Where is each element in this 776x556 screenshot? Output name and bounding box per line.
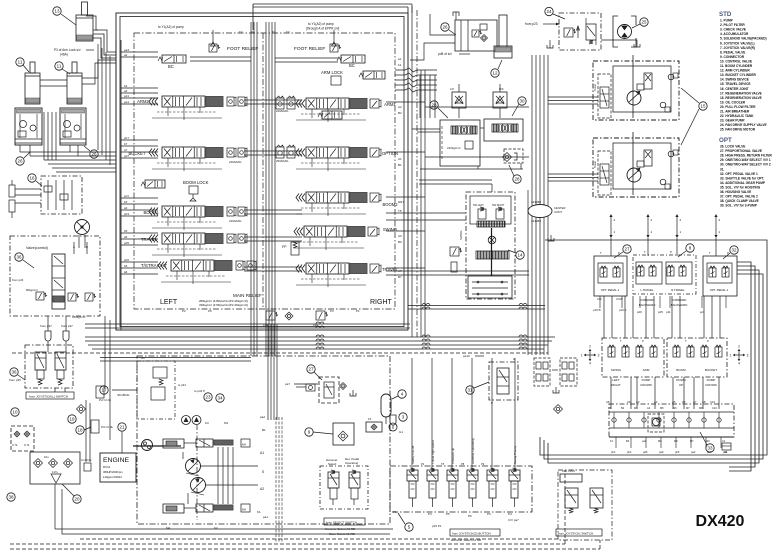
svg-text:220kg/cm²: 220kg/cm² — [447, 146, 461, 150]
label LEFT — [160, 299, 178, 306]
svg-text:28: 28 — [514, 177, 520, 182]
svg-text:SWING: SWING — [611, 368, 622, 372]
pilot relief A3 — [141, 356, 186, 400]
valve BUCKET — [149, 147, 247, 171]
circle 30 top — [512, 97, 526, 116]
circle 36 valve control — [15, 253, 34, 268]
vent above holding box — [453, 12, 459, 20]
svg-text:U=A OVRC: U=A OVRC — [562, 469, 575, 473]
svg-text:Travel: Travel — [594, 84, 597, 91]
pilot relief A3 box — [137, 361, 175, 419]
control valve block dash-dot border — [134, 33, 395, 309]
valve ARM1 regen — [318, 111, 342, 119]
circle 20 — [62, 484, 81, 503]
svg-text:OPT. PEDAL 1: OPT. PEDAL 1 — [601, 288, 620, 292]
svg-text:DX420: DX420 — [696, 513, 745, 530]
svg-text:CW: CW — [597, 297, 602, 301]
svg-text:to Y1(A2) of pump: to Y1(A2) of pump — [308, 22, 334, 26]
svg-text:P: P — [727, 251, 729, 255]
label BOOM LOCK — [183, 180, 209, 201]
accumulator 3 — [389, 415, 397, 431]
note steer select a1 — [329, 532, 355, 536]
valve main relief 2 — [313, 311, 328, 327]
circle 17 — [96, 386, 111, 402]
svg-text:C10: C10 — [712, 406, 717, 410]
joystick cross right — [730, 345, 749, 366]
pedal valve L TRAVEL — [636, 262, 662, 292]
svg-text:R.TRAVEL: R.TRAVEL — [671, 288, 685, 292]
right solenoid assembly — [558, 469, 612, 540]
pedal port labels — [593, 308, 705, 314]
travel motor block right — [60, 108, 86, 145]
valve T-STRAIGHT — [158, 260, 256, 284]
svg-text:pb5: pb5 — [675, 450, 680, 454]
label BOOM2 — [382, 202, 398, 207]
small box F1 — [366, 417, 382, 432]
svg-text:26: 26 — [442, 25, 448, 30]
boom cylinder left — [25, 62, 40, 104]
hammer valve 2 — [349, 470, 360, 505]
travel pedal dashdot box — [633, 255, 696, 294]
svg-text:A4: A4 — [647, 406, 651, 410]
wire top return bus — [253, 4, 412, 60]
svg-text:a2: a2 — [124, 53, 128, 57]
svg-text:BOOM1: BOOM1 — [143, 210, 159, 215]
label TRAVEL right — [382, 267, 399, 272]
svg-text:K1: K1 — [257, 510, 261, 514]
svg-text:T: T — [620, 339, 622, 343]
svg-text:Hammer Select A1 RB: Hammer Select A1 RB — [451, 538, 481, 542]
svg-text:ARM1: ARM1 — [384, 102, 396, 107]
circle 25 — [632, 18, 648, 28]
svg-text:380HP/2000rpm: 380HP/2000rpm — [103, 470, 123, 474]
svg-text:UP: UP — [679, 383, 683, 387]
boom holding valve box — [455, 20, 497, 51]
svg-text:14: 14 — [517, 253, 523, 258]
wire pilot crossing — [395, 68, 437, 118]
fan supply valve box — [559, 13, 601, 50]
valve 21 glyph — [91, 420, 113, 433]
svg-text:K3: K3 — [205, 421, 209, 425]
svg-text:21: 21 — [119, 425, 125, 430]
wire holding to block — [410, 14, 455, 60]
svg-text:pd5: pd5 — [124, 241, 129, 245]
valve ARM2 — [149, 96, 247, 120]
svg-text:2. PILOT FILTER: 2. PILOT FILTER — [720, 23, 745, 27]
port labels top — [239, 30, 290, 34]
svg-text:2: 2 — [738, 345, 740, 349]
svg-text:A8: A8 — [606, 400, 610, 404]
svg-text:3: 3 — [747, 353, 749, 357]
svg-text:BACKWARD: BACKWARD — [639, 303, 656, 307]
pilot caps ARM1 — [276, 96, 295, 113]
pedal valve OPT PEDAL 1 left — [594, 251, 627, 296]
svg-text:421388: 421388 — [531, 200, 541, 204]
svg-text:A3: A3 — [636, 400, 640, 404]
arm cylinder — [494, 15, 512, 58]
svg-text:T/STRAIGHT: T/STRAIGHT — [141, 263, 167, 268]
svg-text:SW LEFT: SW LEFT — [473, 204, 484, 207]
filter diamond mid — [503, 153, 518, 162]
circle 15 — [681, 88, 707, 145]
label SWING — [383, 227, 397, 232]
svg-text:MAIN RELIEF: MAIN RELIEF — [233, 293, 262, 298]
pump regulator piston 1 — [163, 439, 196, 448]
joystick cross left — [581, 345, 600, 366]
circle 10 left — [11, 408, 19, 416]
shuttle port labels bottom — [611, 450, 728, 454]
label ARM LOCK — [321, 70, 343, 85]
svg-text:M9: M9 — [658, 439, 662, 443]
wire right block bus — [408, 306, 545, 310]
valve main relief 1 — [263, 311, 278, 327]
svg-text:p11: p11 — [666, 310, 671, 314]
svg-text:ARM LOCK: ARM LOCK — [321, 70, 343, 75]
note from p37 right — [61, 324, 73, 328]
svg-text:T: T — [644, 250, 646, 254]
svg-text:1: 1 — [730, 353, 732, 357]
svg-text:P: P — [618, 251, 620, 255]
pedal fwd bwd labels — [639, 298, 688, 307]
label swing rotated — [459, 231, 463, 240]
svg-text:M7: M7 — [686, 406, 690, 410]
svg-text:FORWARD: FORWARD — [640, 298, 655, 302]
svg-text:P6: P6 — [468, 514, 472, 518]
control valve block outer frame — [116, 13, 408, 330]
svg-text:pa4: pa4 — [124, 48, 129, 52]
labels joystick RCV 1 — [611, 378, 652, 387]
valve U glyph — [81, 458, 92, 471]
shuttle drop wires — [616, 437, 721, 448]
svg-text:pd6: pd6 — [637, 310, 642, 314]
svg-text:A5: A5 — [672, 400, 676, 404]
svg-text:B1: B1 — [262, 428, 266, 432]
solenoid valve bank 5 — [487, 468, 498, 507]
svg-text:NH: NH — [242, 508, 246, 512]
svg-text:26: 26 — [17, 159, 23, 164]
svg-text:P0: P0 — [208, 309, 212, 313]
note from p37 left — [40, 324, 52, 328]
tank glyph cj — [548, 235, 554, 241]
svg-text:A7: A7 — [693, 400, 697, 404]
svg-text:3. CHECK VALVE: 3. CHECK VALVE — [720, 28, 746, 32]
svg-text:M8: M8 — [699, 406, 703, 410]
note pa10 — [463, 354, 484, 358]
svg-text:pc3: pc3 — [124, 194, 129, 198]
shuttle port labels top — [608, 406, 717, 410]
svg-text:M5: M5 — [660, 406, 664, 410]
svg-text:P1: P1 — [393, 510, 397, 514]
main pump 1 — [186, 459, 201, 477]
note P3 of arm lock — [54, 48, 94, 57]
boom cylinder right — [67, 62, 82, 104]
svg-text:37. OPT. PEDAL VALVE 2: 37. OPT. PEDAL VALVE 2 — [720, 195, 758, 199]
solenoid valve bank 1 — [407, 468, 418, 507]
svg-text:to Y1(A2) of pump: to Y1(A2) of pump — [158, 25, 184, 29]
svg-text:P3: P3 — [487, 512, 491, 516]
svg-text:39. SOL. V/V for 3-PUMP: 39. SOL. V/V for 3-PUMP — [720, 204, 758, 208]
check valve LK — [450, 84, 466, 118]
valve SWING — [294, 226, 379, 250]
label CENTER JOINT — [554, 206, 566, 214]
pump port labels — [166, 415, 268, 530]
svg-text:A4: A4 — [654, 400, 658, 404]
svg-text:from p37: from p37 — [40, 324, 52, 328]
svg-text:4: 4 — [589, 362, 591, 366]
pump regulator spool 2 — [196, 504, 250, 512]
svg-text:to p34 P: to p34 P — [194, 389, 205, 393]
wire bottom dashed — [10, 470, 600, 549]
svg-text:JOINT: JOINT — [554, 210, 562, 214]
svg-text:BUCKET: BUCKET — [129, 151, 146, 156]
solenoid valve L2 — [55, 352, 66, 385]
circle 28 top — [430, 101, 448, 118]
note hammer select a1 — [325, 527, 355, 531]
pedal valve R TRAVEL — [644, 250, 692, 292]
svg-text:A9: A9 — [627, 400, 631, 404]
svg-text:13: 13 — [54, 9, 60, 14]
note from JOYSTICK SWITCH 2 — [556, 529, 602, 536]
svg-text:16: 16 — [29, 176, 35, 181]
svg-text:27: 27 — [624, 247, 630, 252]
svg-text:22. HYDRAULIC TANK: 22. HYDRAULIC TANK — [720, 114, 754, 118]
hammer select box — [320, 466, 368, 509]
svg-text:15. TRAVEL DEVICE: 15. TRAVEL DEVICE — [720, 82, 751, 86]
svg-text:ENGINE: ENGINE — [103, 457, 130, 464]
svg-text:T1: T1 — [272, 30, 276, 34]
label rotated Travel high speed — [431, 440, 435, 464]
valve FOOT RELIEF right — [330, 30, 341, 52]
boom cylinder left circle 11 — [16, 58, 29, 72]
svg-text:P2: P2 — [421, 462, 425, 466]
svg-text:25. FAN DRIVE MOTOR: 25. FAN DRIVE MOTOR — [720, 128, 756, 132]
svg-text:SW RIGHT: SW RIGHT — [492, 204, 505, 207]
svg-text:M4: M4 — [166, 526, 170, 530]
svg-text:pd1: pd1 — [124, 94, 129, 98]
svg-text:OPT: OPT — [719, 137, 732, 144]
proportional valve mid — [296, 377, 339, 403]
label rotated Hammer Operating — [471, 438, 475, 464]
svg-text:P9: P9 — [481, 462, 485, 466]
joystick RCV 2 — [667, 338, 727, 377]
engine box — [100, 453, 136, 482]
svg-text:B7: B7 — [398, 275, 402, 279]
check diamond lower right — [554, 405, 563, 414]
svg-text:from SELECT SWITCH: from SELECT SWITCH — [326, 520, 357, 524]
svg-text:16. CENTER JOINT: 16. CENTER JOINT — [720, 87, 749, 91]
svg-text:38. QUICK CLAMP VALVE: 38. QUICK CLAMP VALVE — [720, 199, 759, 203]
svg-text:M6: M6 — [673, 406, 677, 410]
svg-text:30. ONE/TWO-WAY SELECT V/V 2: 30. ONE/TWO-WAY SELECT V/V 2 — [720, 163, 771, 167]
svg-text:M7: M7 — [690, 439, 694, 443]
solenoid bank box — [390, 466, 532, 512]
svg-text:STD: STD — [719, 11, 732, 18]
svg-text:from JOYSTICK(L) SWITCH: from JOYSTICK(L) SWITCH — [29, 394, 68, 398]
svg-text:T: T — [685, 339, 687, 343]
svg-text:3: 3 — [598, 353, 600, 357]
svg-text:A2: A2 — [260, 487, 264, 491]
svg-text:34. ADDITIONAL GEAR PUMP: 34. ADDITIONAL GEAR PUMP — [720, 181, 766, 185]
svg-text:B2: B2 — [621, 406, 625, 410]
wire pilot feed — [100, 358, 251, 362]
svg-text:from JOYSTICK( SWITCH: from JOYSTICK( SWITCH — [558, 531, 593, 535]
svg-text:FORWARD: FORWARD — [672, 298, 687, 302]
svg-text:DV11: DV11 — [103, 465, 111, 469]
pilot caps OPTION — [276, 145, 295, 163]
label DX420 — [696, 513, 745, 530]
port labels left column — [124, 48, 129, 274]
wire rcv to shuttle — [611, 377, 719, 409]
wire travel blocks bus — [20, 145, 116, 172]
svg-text:B0: B0 — [398, 240, 402, 244]
svg-text:0.7k: 0.7k — [24, 443, 30, 447]
svg-text:Select: Select — [328, 462, 337, 466]
svg-text:from p24: from p24 — [12, 278, 24, 282]
bucket cylinder circle 13 — [53, 7, 76, 25]
pump shaft line — [196, 425, 198, 520]
svg-text:5. SOLENOID VALVE(PACKED): 5. SOLENOID VALVE(PACKED) — [720, 37, 767, 41]
wire bottom return bus — [540, 437, 729, 463]
note p26 P1 — [432, 524, 442, 528]
svg-text:to p34: to p34 — [178, 383, 186, 387]
wire suction lines — [55, 484, 393, 534]
pedal arrows — [609, 214, 720, 238]
wire pedal arrows drop — [600, 238, 726, 308]
note from p23 — [525, 22, 560, 26]
svg-text:DUMP: DUMP — [642, 378, 651, 382]
svg-text:[through A of EPPR s/v]: [through A of EPPR s/v] — [306, 27, 339, 31]
circle 28 mid — [509, 165, 521, 183]
svg-text:FOOT RELIEF: FOOT RELIEF — [227, 46, 258, 52]
wire hose bundle left — [98, 44, 110, 165]
svg-text:p16 B: p16 B — [593, 308, 601, 312]
svg-text:P3: P3 — [330, 309, 334, 313]
svg-text:32. OPT. PEDAL VALVE 1: 32. OPT. PEDAL VALVE 1 — [720, 172, 758, 176]
engine shaft line — [133, 445, 181, 447]
circle 31 — [466, 382, 489, 394]
svg-text:6. JOYSTICK VALVE(L): 6. JOYSTICK VALVE(L) — [720, 41, 755, 45]
circle 16 center joint — [28, 174, 42, 186]
svg-text:80kg/cm²: 80kg/cm² — [26, 288, 38, 292]
main pump 2 — [191, 478, 206, 496]
svg-text:12: 12 — [492, 71, 498, 76]
shuttle net box — [534, 358, 577, 393]
svg-text:B2: B2 — [398, 111, 402, 115]
svg-text:FP: FP — [282, 245, 287, 249]
svg-text:23: 23 — [205, 395, 211, 400]
rcv port labels — [606, 400, 716, 404]
valve FP — [282, 242, 299, 255]
svg-text:a7: a7 — [124, 148, 128, 152]
lock valve 31 box — [489, 357, 518, 405]
accumulator 4 — [381, 394, 391, 424]
gear pump top 2 — [192, 416, 201, 425]
valve BOOM1 — [149, 206, 247, 230]
svg-text:L.TRAVEL: L.TRAVEL — [640, 288, 653, 292]
svg-text:b1: b1 — [398, 63, 402, 67]
valve control internals — [12, 242, 96, 319]
wire swing motor drop — [79, 235, 85, 248]
svg-text:C10: C10 — [710, 400, 716, 404]
svg-text:a3: a3 — [124, 206, 128, 210]
svg-text:BOOM LOCK: BOOM LOCK — [183, 180, 209, 185]
wire right return verticals — [545, 240, 767, 471]
circle 24 — [545, 7, 565, 19]
svg-text:34: 34 — [217, 396, 223, 401]
circle 18 — [76, 426, 91, 434]
suction strainer box — [30, 452, 80, 484]
label FOOT RELIEF left — [227, 46, 258, 52]
svg-text:T2: T2 — [239, 30, 243, 34]
svg-text:from p35: from p35 — [9, 378, 21, 382]
svg-text:38: 38 — [8, 495, 14, 500]
pump regulator piston 2 — [163, 504, 196, 513]
svg-text:33. SHUTTLE VALVE for OPT.: 33. SHUTTLE VALVE for OPT. — [720, 176, 764, 180]
svg-text:ARM2: ARM2 — [137, 99, 149, 104]
label BUCKET — [129, 151, 146, 156]
svg-text:pb7: pb7 — [124, 136, 129, 140]
svg-text:M0: M0 — [706, 439, 710, 443]
valve FOOT RELIEF left — [209, 30, 220, 52]
travel motor block left — [15, 108, 42, 145]
svg-text:P1: P1 — [356, 309, 360, 313]
svg-text:K2: K2 — [214, 526, 218, 530]
svg-text:17. REGENERATION VALVE: 17. REGENERATION VALVE — [720, 91, 762, 95]
svg-text:19. OIL COOLER: 19. OIL COOLER — [720, 100, 746, 104]
svg-text:b7: b7 — [124, 142, 128, 146]
label FOOT RELIEF right — [294, 46, 325, 52]
svg-text:A0: A0 — [398, 234, 402, 238]
wire prop stubs — [412, 128, 523, 192]
joystick solenoid box — [25, 345, 73, 388]
svg-text:P: P — [642, 339, 644, 343]
gear pump top 1 — [182, 416, 191, 425]
svg-text:A8: A8 — [608, 406, 612, 410]
svg-text:b3: b3 — [124, 200, 128, 204]
svg-text:ARM: ARM — [643, 368, 650, 372]
svg-text:from p23: from p23 — [525, 22, 538, 26]
shuttle small glyph — [722, 443, 731, 454]
check diamond 19 — [77, 405, 86, 414]
wire travel feed — [548, 97, 598, 181]
wire pump feedback — [183, 447, 258, 504]
pilot check box — [11, 426, 34, 451]
svg-text:from JOYSTICK(S) BUTTON: from JOYSTICK(S) BUTTON — [452, 531, 491, 535]
label MAIN RELIEF — [233, 293, 262, 298]
svg-text:Hammer Select A1 RB: Hammer Select A1 RB — [325, 527, 355, 531]
note 4Dx8D4L — [117, 393, 130, 397]
svg-text:CROWD: CROWD — [705, 383, 717, 387]
svg-text:P: P — [670, 250, 672, 254]
svg-text:15: 15 — [700, 104, 706, 109]
svg-text:BOOM: BOOM — [676, 368, 686, 372]
svg-text:a5: a5 — [124, 235, 128, 239]
svg-text:36: 36 — [11, 370, 17, 375]
svg-text:b6: b6 — [124, 264, 128, 268]
svg-text:TRAVEL: TRAVEL — [141, 237, 158, 242]
svg-text:pd5: pd5 — [658, 310, 663, 314]
note pa7 mid — [285, 382, 318, 386]
svg-text:20. FULL FLOW FILTER: 20. FULL FLOW FILTER — [720, 105, 756, 109]
wire bucket cylinder hoses — [86, 16, 116, 58]
label ARM1 — [384, 102, 396, 107]
svg-text:pb3: pb3 — [124, 212, 129, 216]
svg-text:T3: T3 — [286, 30, 290, 34]
note hammer select a1 2 — [451, 538, 481, 542]
svg-text:NH: NH — [242, 443, 246, 447]
svg-text:240A020L: 240A020L — [276, 109, 289, 113]
valve BOOM regen — [141, 180, 165, 188]
